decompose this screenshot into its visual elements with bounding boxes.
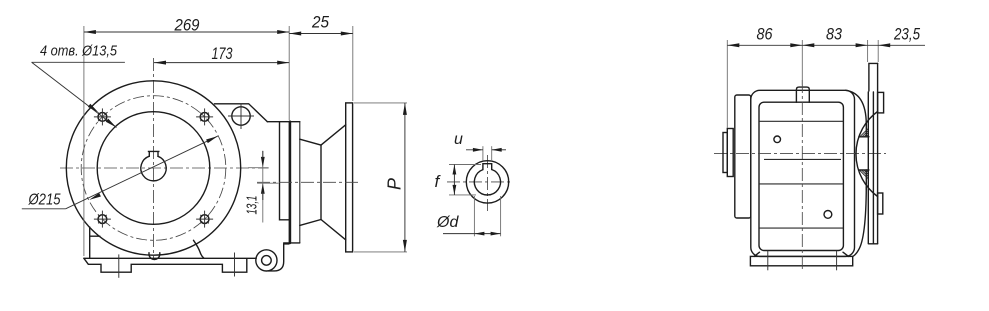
centerline horizontal view1 (output axis) [60, 167, 269, 169]
view2 motor flange disc arc [856, 112, 878, 197]
svg-text:25: 25 [311, 13, 329, 32]
view2 shaft stub plate [727, 129, 733, 177]
dim dia d extensions [473, 196, 475, 236]
housing left ledge [90, 235, 100, 237]
shaft bore circle with keyway [474, 170, 500, 195]
view2 disc bore lines [859, 136, 869, 138]
view2 output cover plate [735, 95, 751, 218]
svg-text:Ø215: Ø215 [28, 192, 61, 209]
svg-text:Ød: Ød [436, 214, 459, 231]
view2 horizontal centerline [714, 152, 886, 154]
dia 215 dimension line [66, 136, 218, 209]
svg-text:269: 269 [174, 16, 200, 35]
drain bump under flange [149, 253, 160, 260]
dia 215 shelf [22, 208, 66, 210]
dim f extensions [449, 164, 481, 166]
flange bolt hole at 102,117 [98, 113, 107, 122]
outer flange circle [66, 81, 240, 255]
dim 269 extension left [83, 26, 85, 256]
base top line [84, 257, 256, 259]
inner spigot circle [97, 112, 210, 225]
view2 face line 4 [759, 227, 843, 229]
centerline vertical view1 [153, 58, 155, 260]
dim f line [453, 165, 455, 195]
flange plate bottom edge [284, 242, 300, 244]
flange plate face (left thick edge) [289, 122, 292, 243]
cone neck [320, 145, 322, 219]
view2 dim 23,5 [868, 44, 925, 46]
view2 inner face [759, 102, 843, 250]
flange plate right edge [299, 122, 301, 243]
base lug right outline [268, 244, 284, 271]
view2 bell fillet bottom [853, 187, 866, 256]
view2 bell fillet top [846, 90, 867, 124]
dim line 25 [289, 33, 353, 35]
view2 base chamfer left [754, 252, 759, 256]
flange bolt hole at 205,219 [200, 215, 209, 224]
view2 face line 3 [759, 183, 843, 185]
view2 top boss [796, 87, 809, 102]
dim line 173 [154, 62, 289, 64]
shaft keyway slot [483, 164, 492, 170]
bolt circle (dash-dot) [81, 96, 226, 241]
housing lug top-right outline [215, 104, 268, 122]
view2 dim line 86 [727, 44, 802, 46]
dim line 269 [84, 31, 289, 33]
view2 foot centerline right [836, 251, 838, 271]
base lug boss bottom right [256, 250, 277, 271]
view2 foot centerline left [767, 251, 769, 271]
flange bolt hole at 102,219 [98, 215, 107, 224]
dim 25 extension right [352, 26, 354, 101]
svg-text:86: 86 [757, 25, 773, 44]
view2 flange plate lines [865, 122, 867, 137]
housing right wall [280, 122, 289, 220]
base lug top edge to flange [284, 243, 289, 245]
svg-text:173: 173 [212, 44, 233, 63]
svg-text:13,1: 13,1 [244, 196, 260, 215]
shaft outer circle [466, 161, 508, 203]
view2 face line 1 [759, 120, 843, 122]
view2 vertical centerline [801, 80, 803, 271]
view2 base [750, 256, 852, 265]
leader 4 holes [32, 61, 125, 63]
view2 dim line 83 [802, 44, 867, 46]
svg-text:P: P [384, 178, 404, 190]
view2 face line 2 [764, 158, 841, 160]
dim 269/25 extension middle [288, 26, 290, 120]
view2 small tab lower right [878, 193, 883, 214]
view2 small tab upper right [878, 92, 884, 113]
dim 13,1 line [262, 151, 264, 223]
housing left wall [89, 227, 91, 258]
motor flange plate [346, 103, 353, 252]
housing top edge to flange [267, 121, 299, 123]
foot centerline right [234, 253, 236, 277]
svg-text:4 отв. Ø13,5: 4 отв. Ø13,5 [40, 43, 118, 60]
dim P line [404, 103, 406, 252]
view2 hatch lower [859, 170, 868, 179]
base lug hole [262, 256, 272, 266]
input cone top [300, 125, 346, 145]
dim u line [466, 149, 483, 151]
input axis centerline [257, 181, 360, 183]
dim P extensions [354, 102, 407, 104]
view2 dim extensions [726, 40, 728, 128]
view2 base chamfer right [843, 252, 849, 256]
flange bolt hole at 205,117 [200, 113, 209, 122]
view2 hatch upper [860, 128, 869, 137]
svg-text:23,5: 23,5 [893, 25, 920, 44]
view2 plug upper [774, 136, 781, 143]
lug hole [232, 107, 250, 125]
dim dia d line [443, 233, 501, 235]
base right fillet from circle [194, 240, 205, 258]
view2 shaft stub cap [723, 133, 727, 173]
base bottom profile with feet [84, 258, 247, 272]
dim u extensions [482, 146, 484, 161]
view2 bottom tab edge [869, 243, 878, 245]
input cone bottom [300, 220, 346, 240]
shaft bore with keyway [141, 156, 166, 181]
view2 plug lower [824, 211, 832, 219]
foot centerline left [118, 254, 120, 277]
view2 top tab [869, 63, 878, 91]
svg-text:83: 83 [826, 25, 842, 44]
shaft section centerlines [487, 155, 489, 211]
svg-text:u: u [454, 131, 463, 148]
view2 body outer [751, 90, 855, 256]
